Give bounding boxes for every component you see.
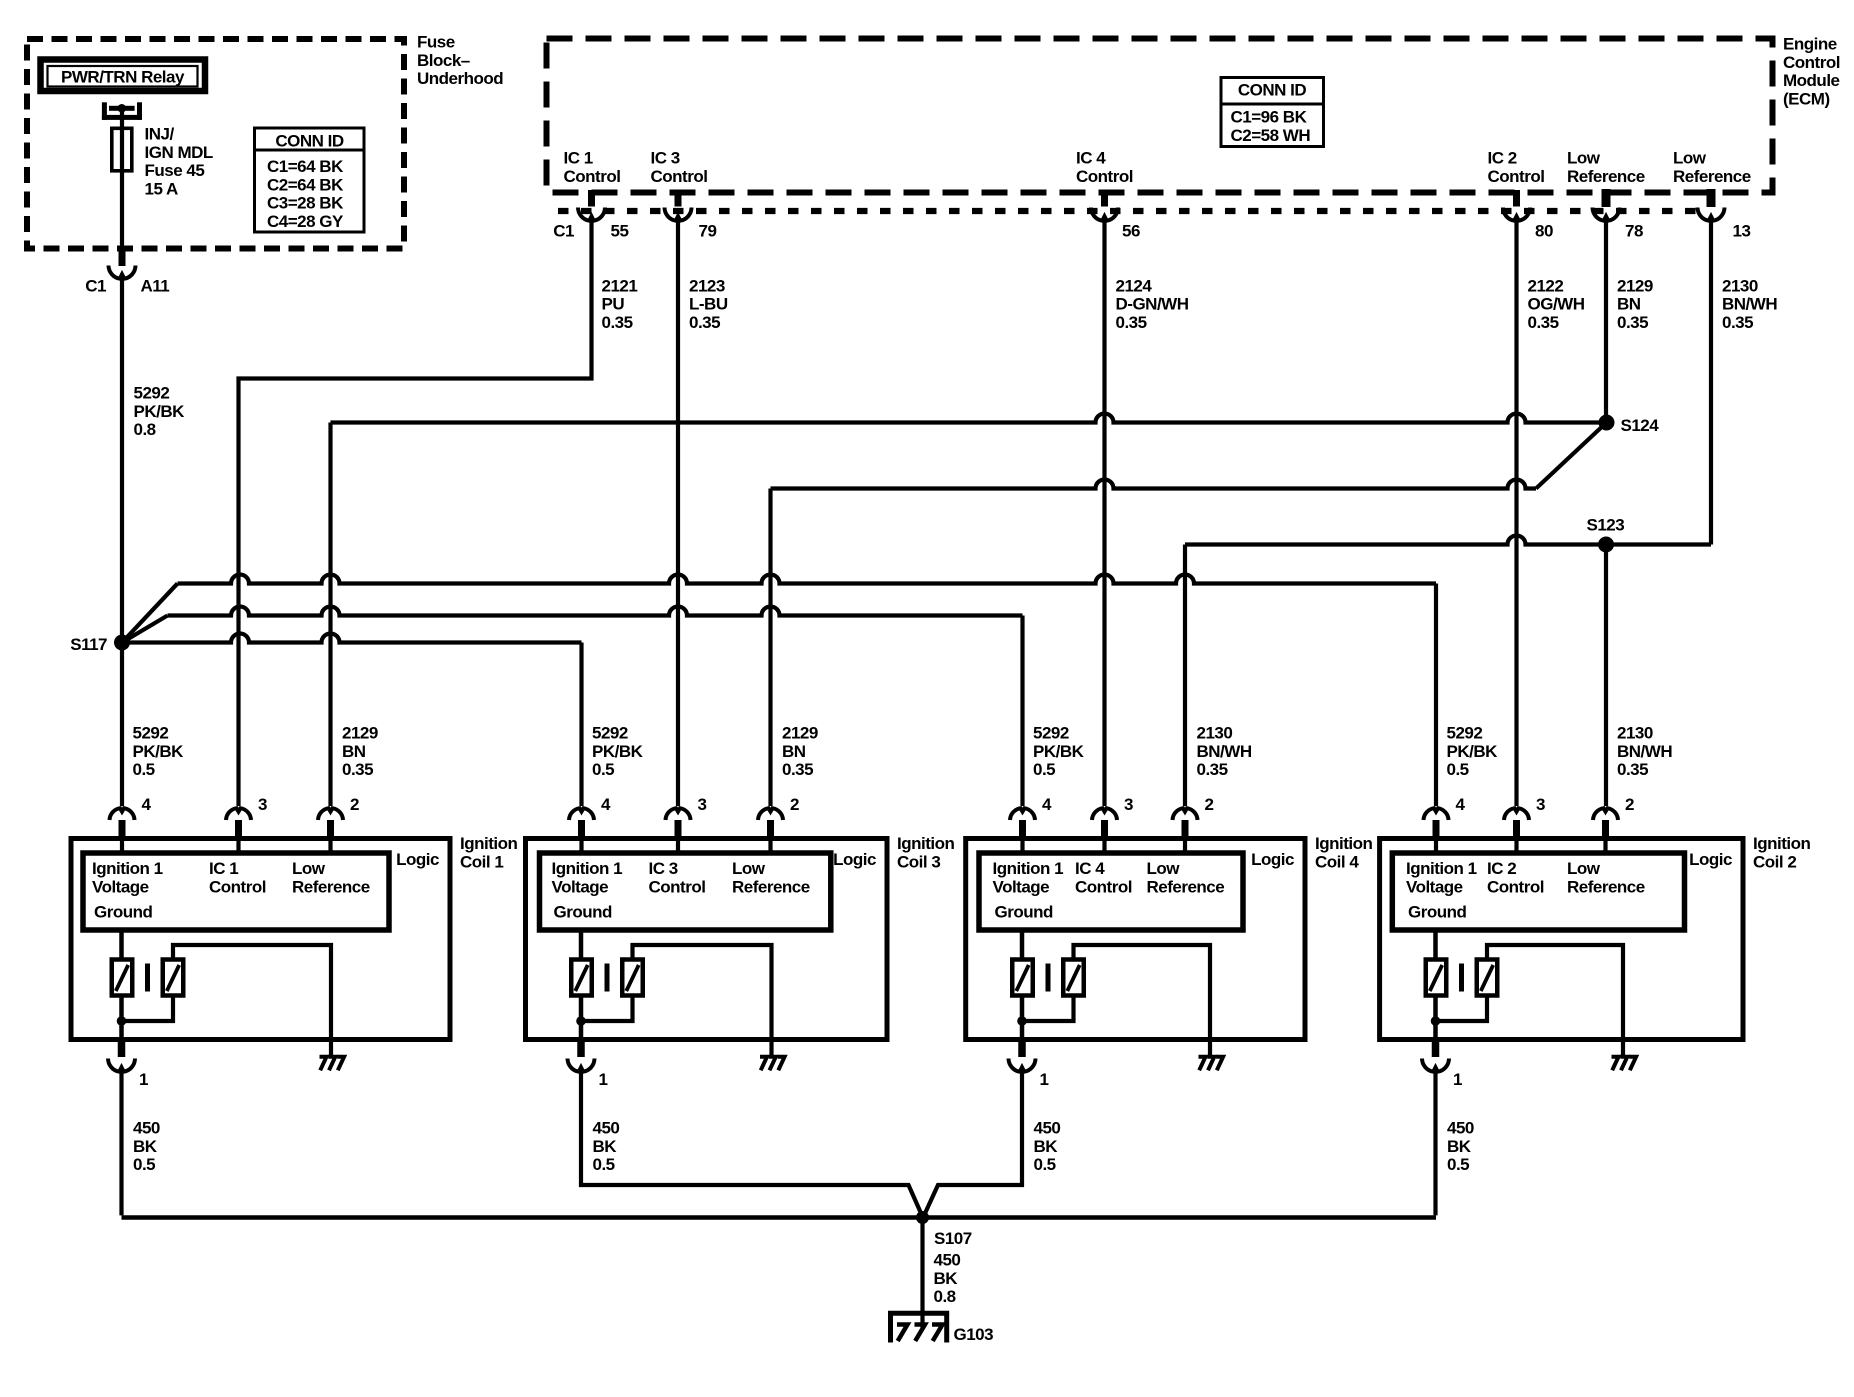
svg-text:Coil 4: Coil 4 [1315,852,1359,871]
svg-text:4: 4 [601,795,611,814]
svg-text:C1=64 BK: C1=64 BK [267,157,344,176]
svg-text:0.5: 0.5 [592,760,614,779]
svg-text:80: 80 [1535,222,1553,241]
svg-text:Ground: Ground [554,903,612,922]
svg-text:Control: Control [651,167,708,186]
svg-text:Ground: Ground [995,903,1053,922]
svg-text:1: 1 [599,1070,608,1089]
svg-text:Ignition 1: Ignition 1 [993,859,1064,878]
svg-text:Ignition 1: Ignition 1 [1406,859,1477,878]
svg-text:5292: 5292 [133,724,169,743]
svg-text:BK: BK [1034,1137,1059,1156]
svg-text:Module: Module [1783,71,1840,90]
svg-text:CONN ID: CONN ID [275,132,344,151]
svg-text:0.35: 0.35 [1617,760,1648,779]
svg-text:S124: S124 [1621,416,1660,435]
svg-text:450: 450 [934,1251,961,1270]
svg-text:C1: C1 [85,277,106,296]
svg-text:IC 2: IC 2 [1487,859,1516,878]
svg-text:0.35: 0.35 [1528,313,1559,332]
svg-text:S123: S123 [1587,516,1625,535]
svg-text:Low: Low [1567,859,1601,878]
svg-text:3: 3 [698,795,707,814]
svg-text:Underhood: Underhood [417,69,503,88]
svg-text:Block–: Block– [417,51,470,70]
svg-text:Voltage: Voltage [993,877,1050,896]
svg-text:2129: 2129 [1617,276,1653,295]
svg-text:Logic: Logic [1251,850,1294,869]
svg-text:PK/BK: PK/BK [592,742,644,761]
svg-text:D-GN/WH: D-GN/WH [1116,295,1189,314]
svg-text:IC 2: IC 2 [1488,149,1517,168]
svg-text:L-BU: L-BU [689,295,728,314]
svg-text:1: 1 [1040,1070,1049,1089]
svg-text:S117: S117 [70,635,107,654]
svg-text:Control: Control [1487,877,1544,896]
svg-text:BN/WH: BN/WH [1722,295,1777,314]
svg-text:Fuse: Fuse [417,33,455,52]
svg-text:Control: Control [1076,167,1133,186]
svg-text:Control: Control [1075,877,1132,896]
svg-text:Low: Low [292,859,326,878]
svg-text:Logic: Logic [396,850,439,869]
svg-text:BK: BK [1447,1137,1472,1156]
svg-text:C4=28 GY: C4=28 GY [267,212,344,231]
svg-text:4: 4 [1456,795,1466,814]
svg-text:2121: 2121 [602,276,638,295]
svg-text:4: 4 [142,795,152,814]
svg-text:BK: BK [133,1137,158,1156]
svg-text:Coil 1: Coil 1 [460,852,503,871]
svg-text:Ground: Ground [1408,903,1466,922]
svg-text:0.35: 0.35 [342,760,373,779]
svg-text:Ignition: Ignition [897,834,954,853]
svg-text:IC 3: IC 3 [651,149,680,168]
svg-text:0.8: 0.8 [134,420,156,439]
svg-text:Control: Control [564,167,621,186]
svg-text:C2=64 BK: C2=64 BK [267,175,344,194]
svg-text:Reference: Reference [732,877,810,896]
svg-text:IC 3: IC 3 [649,859,678,878]
svg-text:0.5: 0.5 [133,1155,155,1174]
svg-text:PK/BK: PK/BK [133,742,185,761]
svg-text:78: 78 [1625,222,1643,241]
svg-text:Control: Control [209,877,266,896]
svg-text:2130: 2130 [1617,724,1653,743]
svg-text:Coil 2: Coil 2 [1753,852,1796,871]
svg-text:2: 2 [790,795,799,814]
svg-text:Reference: Reference [1567,877,1645,896]
svg-text:Low: Low [1147,859,1181,878]
svg-text:2122: 2122 [1528,276,1564,295]
svg-text:13: 13 [1733,222,1751,241]
svg-text:IGN MDL: IGN MDL [145,143,213,162]
svg-text:PWR/TRN Relay: PWR/TRN Relay [61,68,185,87]
svg-text:BN: BN [782,742,806,761]
svg-text:3: 3 [258,795,267,814]
svg-text:PK/BK: PK/BK [1033,742,1085,761]
svg-text:0.35: 0.35 [689,313,720,332]
svg-text:OG/WH: OG/WH [1528,295,1585,314]
svg-text:0.35: 0.35 [602,313,633,332]
svg-text:BK: BK [934,1269,959,1288]
svg-text:2130: 2130 [1722,276,1758,295]
svg-text:Ignition: Ignition [460,834,517,853]
svg-text:0.5: 0.5 [133,760,155,779]
svg-text:Reference: Reference [1567,167,1645,186]
svg-text:1: 1 [1453,1070,1462,1089]
svg-text:5292: 5292 [592,724,628,743]
svg-text:Voltage: Voltage [92,877,149,896]
svg-text:IC 4: IC 4 [1076,149,1106,168]
svg-text:G103: G103 [954,1325,994,1344]
svg-text:Voltage: Voltage [552,877,609,896]
svg-text:55: 55 [611,222,629,241]
svg-text:2: 2 [350,795,359,814]
svg-text:0.8: 0.8 [934,1287,956,1306]
svg-text:S107: S107 [934,1229,972,1248]
svg-text:79: 79 [699,222,717,241]
svg-text:Ignition 1: Ignition 1 [92,859,163,878]
svg-text:2: 2 [1205,795,1214,814]
svg-text:Ignition: Ignition [1753,834,1810,853]
svg-text:Reference: Reference [1147,877,1225,896]
svg-text:Voltage: Voltage [1406,877,1463,896]
svg-text:PK/BK: PK/BK [134,402,186,421]
svg-text:Reference: Reference [1673,167,1751,186]
svg-text:0.5: 0.5 [1033,760,1055,779]
svg-text:Low: Low [1673,149,1707,168]
svg-text:Reference: Reference [292,877,370,896]
svg-text:BN/WH: BN/WH [1617,742,1672,761]
svg-text:0.5: 0.5 [1447,760,1469,779]
svg-text:IC 1: IC 1 [564,149,593,168]
svg-text:15 A: 15 A [145,179,179,198]
svg-text:0.5: 0.5 [593,1155,615,1174]
svg-text:C3=28 BK: C3=28 BK [267,194,344,213]
svg-text:450: 450 [133,1119,160,1138]
svg-text:0.35: 0.35 [1197,760,1228,779]
svg-text:5292: 5292 [1033,724,1069,743]
svg-text:PK/BK: PK/BK [1447,742,1499,761]
svg-text:Fuse 45: Fuse 45 [145,161,205,180]
svg-text:450: 450 [1447,1119,1474,1138]
svg-text:1: 1 [139,1070,148,1089]
svg-text:2129: 2129 [782,724,818,743]
svg-text:Logic: Logic [1689,850,1732,869]
svg-text:BK: BK [593,1137,618,1156]
svg-text:Logic: Logic [833,850,876,869]
svg-text:2130: 2130 [1197,724,1233,743]
svg-text:C2=58 WH: C2=58 WH [1231,126,1311,145]
svg-text:Coil 3: Coil 3 [897,852,940,871]
svg-text:2: 2 [1625,795,1634,814]
svg-text:3: 3 [1124,795,1133,814]
svg-text:A11: A11 [141,277,170,296]
svg-text:Ground: Ground [94,903,152,922]
svg-text:450: 450 [593,1119,620,1138]
svg-text:2124: 2124 [1116,276,1153,295]
svg-text:0.35: 0.35 [1722,313,1753,332]
svg-text:4: 4 [1042,795,1052,814]
svg-text:Control: Control [1488,167,1545,186]
svg-text:INJ/: INJ/ [145,125,175,144]
svg-text:BN: BN [1617,295,1641,314]
svg-text:0.35: 0.35 [1116,313,1147,332]
svg-text:IC 1: IC 1 [209,859,238,878]
svg-text:Engine: Engine [1783,35,1837,54]
svg-text:IC 4: IC 4 [1075,859,1105,878]
svg-text:C1=96 BK: C1=96 BK [1231,108,1308,127]
svg-text:CONN ID: CONN ID [1238,81,1307,100]
svg-text:Low: Low [1567,149,1601,168]
svg-text:PU: PU [602,295,625,314]
svg-text:2123: 2123 [689,276,725,295]
svg-text:3: 3 [1536,795,1545,814]
svg-text:BN/WH: BN/WH [1197,742,1252,761]
svg-text:Ignition 1: Ignition 1 [552,859,623,878]
svg-text:Control: Control [1783,53,1840,72]
svg-text:BN: BN [342,742,366,761]
svg-text:5292: 5292 [134,384,170,403]
svg-text:56: 56 [1122,222,1140,241]
svg-text:0.35: 0.35 [1617,313,1648,332]
svg-text:(ECM): (ECM) [1783,89,1830,108]
svg-text:C1: C1 [553,222,574,241]
svg-text:Low: Low [732,859,766,878]
svg-text:0.5: 0.5 [1034,1155,1056,1174]
svg-text:450: 450 [1034,1119,1061,1138]
svg-text:Ignition: Ignition [1315,834,1372,853]
svg-text:5292: 5292 [1447,724,1483,743]
svg-text:0.5: 0.5 [1447,1155,1469,1174]
svg-text:Control: Control [649,877,706,896]
svg-text:2129: 2129 [342,724,378,743]
svg-text:0.35: 0.35 [782,760,813,779]
